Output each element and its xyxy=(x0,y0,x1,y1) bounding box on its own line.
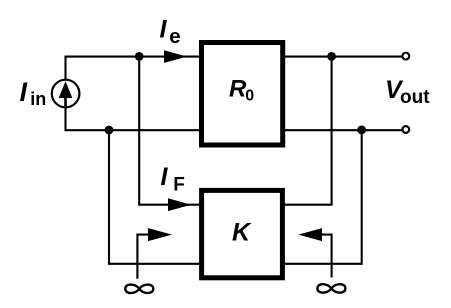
block K xyxy=(202,190,283,277)
svg-text:I: I xyxy=(20,77,28,107)
arrowhead I_F into K xyxy=(168,198,191,211)
terminal bottom-right open circle xyxy=(402,126,409,133)
svg-text:in: in xyxy=(30,89,46,109)
junction dot bottom-right xyxy=(357,125,366,134)
wire: right infinity stub up then left xyxy=(322,235,332,278)
svg-text:I: I xyxy=(160,15,168,43)
arrowhead I_e on top wire xyxy=(164,50,187,63)
infinity symbol right xyxy=(317,284,345,292)
svg-text:out: out xyxy=(400,87,430,108)
svg-text:F: F xyxy=(173,175,185,196)
junction dot bottom-left xyxy=(105,126,114,135)
current source I_in xyxy=(52,80,80,108)
junction dot top-left xyxy=(135,52,144,61)
infinity symbol left xyxy=(125,285,153,293)
wire: right outer loop down then left to K right xyxy=(285,130,362,264)
wire: bottom-left from current source bottom to R0 left xyxy=(66,107,200,130)
arrowhead right stub toward K xyxy=(298,228,322,241)
block R0 xyxy=(202,43,283,146)
svg-text:K: K xyxy=(232,219,252,247)
wire: top-right from R0 right to output terminal xyxy=(285,56,402,58)
wire: bottom-right from R0 right to output terminal xyxy=(285,129,402,131)
wire: top-left from current source top to R0 left xyxy=(66,57,200,80)
svg-text:e: e xyxy=(169,25,180,48)
svg-text:I: I xyxy=(161,163,169,191)
svg-text:0: 0 xyxy=(245,88,254,105)
wire: feedback vertical from top-right junction down into K right xyxy=(285,57,332,205)
svg-text:R: R xyxy=(229,75,247,102)
wire: left infinity stub up then right xyxy=(137,235,149,279)
wire: vertical from top junction down to I_F wire into K xyxy=(139,57,199,205)
arrowhead left stub toward K xyxy=(148,228,172,241)
junction dot top-right xyxy=(327,52,336,61)
terminal top-right open circle xyxy=(402,53,409,60)
wire: left outer loop down then right to K left xyxy=(109,130,200,264)
